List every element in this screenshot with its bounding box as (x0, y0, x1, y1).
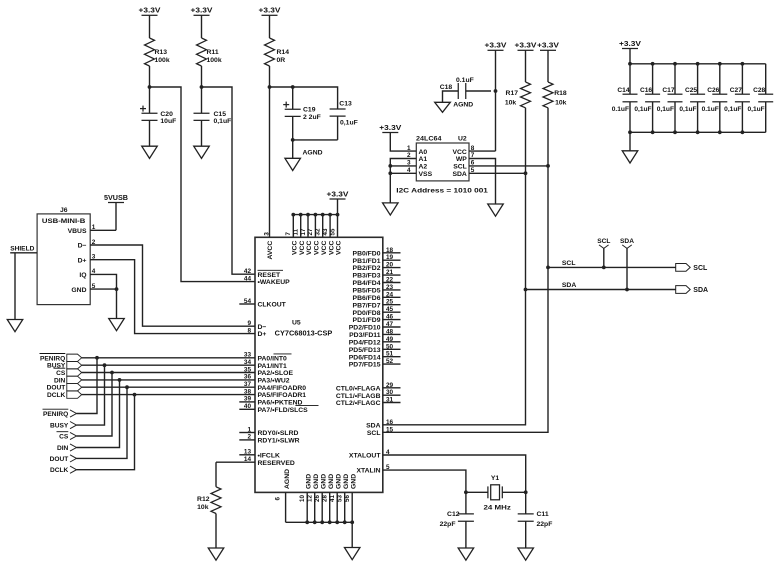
svg-text:10k: 10k (197, 504, 209, 511)
+3.3V rail (R13) (142, 14, 158, 16)
junction (718, 62, 722, 66)
port SDA (676, 286, 691, 294)
svg-text:•IFCLK: •IFCLK (258, 452, 280, 459)
svg-text:29: 29 (386, 382, 394, 389)
capacitor C28 (758, 94, 773, 102)
ground (shield) (7, 320, 23, 332)
AGND pin stub 6 (285, 492, 287, 522)
junction (200, 85, 204, 89)
VCC pin stub 32 (322, 215, 324, 238)
cap bank bottom bus (630, 131, 766, 133)
svg-text:SHIELD: SHIELD (10, 246, 34, 253)
pin stub 54 (239, 303, 255, 305)
svg-text:24LC64: 24LC64 (416, 136, 442, 143)
svg-text:55: 55 (329, 228, 336, 235)
cap bank top bus (630, 63, 766, 65)
svg-text:C19: C19 (303, 107, 316, 114)
svg-text:0R: 0R (277, 57, 286, 64)
D+ wire (90, 260, 255, 334)
svg-text:DIN: DIN (54, 377, 66, 384)
svg-text:PA5/FIFOADR1: PA5/FIFOADR1 (258, 392, 307, 399)
svg-text:26: 26 (314, 495, 321, 502)
svg-text:50: 50 (386, 343, 394, 350)
junction (118, 378, 122, 382)
svg-text:24 MHz: 24 MHz (484, 505, 512, 512)
svg-text:40: 40 (244, 403, 252, 410)
junction (524, 288, 528, 292)
wire C16 bottom (652, 102, 654, 133)
svg-text:VCC: VCC (328, 241, 335, 255)
ground (U2 WP) (488, 204, 504, 216)
svg-text:22pF: 22pF (440, 521, 456, 528)
svg-text:BUSY: BUSY (47, 363, 66, 370)
XTALOUT wire (383, 455, 526, 492)
SDA column (383, 108, 526, 425)
svg-text:C14: C14 (617, 87, 629, 94)
capacitor C18 (458, 83, 466, 99)
capacitor C27 (735, 94, 750, 102)
svg-text:VCC: VCC (292, 241, 299, 255)
svg-text:C28: C28 (753, 87, 765, 94)
wire (201, 66, 203, 114)
ground (194, 146, 210, 158)
svg-text:SCL: SCL (367, 430, 381, 437)
resistor R18 (543, 82, 553, 108)
svg-text:52: 52 (386, 358, 394, 365)
node DOUT flag (67, 384, 82, 391)
wire (466, 90, 491, 92)
svg-text:+3.3V: +3.3V (485, 43, 507, 50)
junction (718, 130, 722, 134)
VCC wire (469, 150, 496, 152)
svg-text:VCC: VCC (452, 149, 466, 156)
ground (J6) (109, 319, 125, 331)
svg-text:24: 24 (386, 291, 394, 298)
junction (328, 520, 332, 524)
pin stub 48 (383, 333, 401, 335)
wire (215, 514, 217, 549)
svg-text:SDA: SDA (693, 287, 708, 294)
svg-text:D+: D+ (78, 257, 87, 264)
port SCL (676, 264, 691, 272)
svg-text:DOUT: DOUT (47, 385, 66, 392)
svg-text:0,1uF: 0,1uF (747, 106, 764, 113)
svg-text:A2: A2 (419, 164, 428, 171)
svg-text:22: 22 (386, 277, 394, 284)
wire (629, 132, 631, 151)
GND pin stub 26 (321, 492, 323, 522)
wire (495, 50, 497, 151)
wire (465, 492, 467, 514)
wire DCLK drop (77, 395, 135, 470)
junction (602, 266, 606, 270)
svg-text:10: 10 (299, 495, 306, 502)
wire (292, 116, 294, 139)
A2 wire (390, 165, 416, 167)
svg-text:PB2/FD2: PB2/FD2 (353, 265, 381, 272)
pin stub 18 (383, 252, 401, 254)
junction (524, 490, 528, 494)
junction (546, 266, 550, 270)
svg-text:10k: 10k (555, 100, 567, 107)
svg-text:C18: C18 (440, 84, 453, 91)
capacitor C16 (645, 94, 660, 102)
+3.3V rail (cap bank) (622, 48, 638, 50)
svg-text:CY7C68013-CSP: CY7C68013-CSP (275, 331, 333, 338)
ground (cap bank) (622, 151, 638, 163)
svg-text:47: 47 (386, 321, 394, 328)
pin stub 13 (239, 454, 255, 456)
wire (293, 139, 338, 141)
svg-text:25: 25 (386, 299, 394, 306)
svg-text:+3.3V: +3.3V (191, 8, 213, 15)
wire C17 bottom (674, 102, 676, 133)
svg-text:DOUT: DOUT (50, 456, 69, 463)
svg-text:U5: U5 (292, 320, 301, 327)
wire C26 top (719, 64, 721, 94)
wire DIN to PA3 (82, 379, 255, 381)
junction (524, 171, 528, 175)
node DCLK input chevron (70, 466, 77, 473)
pin stub 50 (383, 348, 401, 350)
svg-text:GND: GND (320, 474, 327, 489)
junction (651, 130, 655, 134)
wire (149, 15, 151, 38)
wire (443, 91, 459, 102)
wire CS to PA2 (82, 372, 255, 374)
ground (R12) (208, 548, 224, 560)
wire (149, 120, 151, 146)
WP wire (469, 159, 496, 205)
svg-text:28: 28 (321, 495, 328, 502)
svg-text:C12: C12 (447, 511, 460, 518)
+3.3V rail (C18) (488, 49, 504, 51)
junction (291, 213, 295, 217)
svg-text:45: 45 (386, 306, 394, 313)
svg-text:PD5/FD13: PD5/FD13 (349, 347, 381, 354)
junction (110, 371, 114, 375)
wire (603, 248, 605, 267)
svg-text:WP: WP (456, 156, 467, 163)
net label SCL (599, 245, 609, 249)
svg-text:+3.3V: +3.3V (327, 191, 349, 198)
svg-text:SDA: SDA (452, 171, 466, 178)
node DIN flag (67, 376, 82, 383)
svg-text:SCL: SCL (562, 260, 576, 267)
capacitor C20 (140, 106, 158, 121)
svg-text:PA2/•SLOE: PA2/•SLOE (258, 370, 294, 377)
GND pin stub 41 (336, 492, 338, 522)
wire C26 bottom (719, 102, 721, 133)
A1 wire (390, 159, 416, 203)
VCC bus bar (293, 214, 337, 216)
pin stub 46 (383, 319, 401, 321)
RESERVED wire (216, 461, 255, 463)
svg-text:7: 7 (285, 232, 292, 236)
node BUSY flag (67, 362, 82, 369)
junction (673, 62, 677, 66)
wire (525, 521, 527, 548)
svg-text:AGND: AGND (303, 150, 323, 157)
pin stub 49 (383, 341, 401, 343)
pin stub 47 (383, 326, 401, 328)
ground AGND (285, 158, 301, 170)
node DCLK flag (67, 391, 82, 398)
svg-text:XTALIN: XTALIN (356, 468, 380, 475)
ID pin wire (90, 274, 116, 289)
junction (388, 164, 392, 168)
wire DIN drop (77, 380, 120, 448)
svg-text:PD7/FD15: PD7/FD15 (349, 362, 381, 369)
svg-text:SCL: SCL (453, 164, 467, 171)
svg-text:GND: GND (343, 474, 350, 489)
GND wire (90, 289, 116, 318)
junction (741, 130, 745, 134)
pin stub 39 (239, 401, 255, 403)
svg-text:SDA: SDA (366, 422, 380, 429)
svg-text:19: 19 (386, 254, 394, 261)
svg-text:CS: CS (56, 370, 66, 377)
junction (741, 62, 745, 66)
svg-text:CS: CS (59, 434, 69, 441)
VBUS wire (90, 229, 116, 231)
U2 SCL wire (469, 165, 548, 167)
capacitor C26 (712, 94, 727, 102)
svg-text:30: 30 (386, 389, 394, 396)
svg-text:0,1uF: 0,1uF (634, 106, 651, 113)
svg-text:R18: R18 (554, 90, 567, 97)
svg-text:DCLK: DCLK (47, 392, 66, 399)
svg-text:2 2uF: 2 2uF (303, 114, 321, 121)
GND bus bar (286, 521, 353, 523)
resistor R11 (197, 38, 207, 66)
wire (547, 50, 549, 82)
wire (626, 248, 628, 289)
wire PENIRQ drop (77, 358, 98, 414)
svg-text:GND: GND (335, 474, 342, 489)
svg-text:53: 53 (336, 495, 343, 502)
svg-text:10k: 10k (505, 100, 517, 107)
ground (chip) (344, 548, 360, 560)
junction (696, 62, 700, 66)
svg-text:18: 18 (386, 247, 394, 254)
wire AGND drop (292, 140, 294, 158)
svg-text:31: 31 (386, 397, 394, 404)
+3.3V rail (U2 A0) (382, 132, 398, 134)
svg-text:BUSY: BUSY (50, 423, 69, 430)
svg-text:C11: C11 (537, 511, 549, 518)
GND pin stub 28 (329, 492, 331, 522)
VCC pin stub 27 (314, 215, 316, 238)
junction (343, 520, 347, 524)
svg-text:PB0/FD0: PB0/FD0 (353, 250, 381, 257)
svg-text:VCC: VCC (336, 241, 343, 255)
svg-text:R17: R17 (506, 90, 519, 97)
svg-text:PENIRQ: PENIRQ (43, 411, 68, 418)
capacitor C14 (623, 94, 638, 102)
svg-text:1: 1 (247, 426, 251, 433)
junction (313, 520, 317, 524)
svg-text:PB4/FD4: PB4/FD4 (353, 280, 381, 287)
svg-text:C16: C16 (640, 87, 652, 94)
svg-text:RESET: RESET (258, 272, 282, 279)
svg-text:I2C Address = 1010 001: I2C Address = 1010 001 (396, 187, 488, 194)
svg-text:PB1/FD1: PB1/FD1 (353, 258, 381, 265)
wire AVCC feed (269, 66, 271, 237)
node PENIRQ input chevron (70, 410, 77, 417)
svg-text:0,1uF: 0,1uF (340, 120, 358, 127)
wire (201, 120, 203, 146)
svg-text:13: 13 (244, 449, 252, 456)
SDA net (526, 289, 676, 291)
svg-text:CTL1/•FLAGB: CTL1/•FLAGB (336, 393, 381, 400)
junction (625, 288, 629, 292)
svg-text:J6: J6 (60, 207, 68, 214)
ground (142, 146, 158, 158)
svg-text:USB-MINI-B: USB-MINI-B (42, 218, 86, 225)
capacitor C19 (283, 102, 301, 117)
junction (320, 520, 324, 524)
svg-text:R12: R12 (197, 496, 210, 503)
svg-text:54: 54 (244, 298, 252, 305)
junction (305, 520, 309, 524)
wire (337, 199, 339, 215)
svg-text:+3.3V: +3.3V (619, 41, 641, 48)
svg-text:PA4/FIFOADR0: PA4/FIFOADR0 (258, 385, 307, 392)
svg-text:PD4/FD12: PD4/FD12 (349, 339, 381, 346)
svg-text:GND: GND (305, 474, 312, 489)
capacitor C25 (690, 94, 705, 102)
junction (335, 520, 339, 524)
pin stub 19 (383, 259, 401, 261)
crystal Y1 (488, 485, 502, 500)
wire (14, 253, 16, 320)
svg-text:PA7/•FLD/SLCS: PA7/•FLD/SLCS (258, 407, 309, 414)
VCC pin stub 17 (307, 215, 309, 238)
svg-text:RDY1/•SLWR: RDY1/•SLWR (258, 438, 300, 445)
eeprom U2 24LC64 body (416, 143, 469, 181)
svg-text:PA3/•WU2: PA3/•WU2 (258, 378, 290, 385)
svg-text:+3.3V: +3.3V (515, 43, 537, 50)
svg-text:27: 27 (307, 228, 314, 235)
+3.3V rail (VCC bus) (330, 198, 346, 200)
svg-text:17: 17 (300, 228, 307, 235)
wire C14 bottom (629, 102, 631, 133)
pin stub 20 (383, 267, 401, 269)
svg-text:R11: R11 (207, 49, 219, 56)
ground (C12) (458, 548, 474, 560)
svg-text:0,1uF: 0,1uF (679, 106, 696, 113)
svg-text:+3.3V: +3.3V (139, 8, 161, 15)
ground (C11) (518, 548, 534, 560)
svg-text:PB6/FD6: PB6/FD6 (353, 295, 381, 302)
wire DOUT to PA4 (82, 386, 255, 388)
svg-text:PB5/FD5: PB5/FD5 (353, 288, 381, 295)
svg-text:D+: D+ (258, 331, 267, 338)
capacitor C15 (194, 113, 210, 120)
svg-text:VBUS: VBUS (68, 228, 87, 235)
wire C28 bottom (765, 102, 767, 133)
pin stub 21 (383, 274, 401, 276)
junction (336, 213, 340, 217)
wire BUSY to PA1 (82, 364, 255, 366)
svg-text:0,1uF: 0,1uF (657, 106, 674, 113)
VCC pin stub 7 (292, 215, 294, 238)
svg-text:PB3/FD3: PB3/FD3 (353, 273, 381, 280)
svg-text:PENIRQ: PENIRQ (40, 355, 65, 362)
junction (291, 85, 295, 89)
svg-text:DIN: DIN (57, 445, 69, 452)
wire C25 top (697, 64, 699, 94)
svg-text:32: 32 (315, 228, 322, 235)
svg-text:RDY0/•SLRD: RDY0/•SLRD (258, 430, 299, 437)
GND pin stub 10 (306, 492, 308, 522)
svg-text:A0: A0 (419, 149, 428, 156)
GND pin stub 53 (344, 492, 346, 522)
junction (148, 85, 152, 89)
svg-text:VSS: VSS (419, 171, 433, 178)
svg-text:GND: GND (71, 287, 86, 294)
svg-text:C26: C26 (707, 87, 719, 94)
svg-text:0,1uF: 0,1uF (724, 106, 741, 113)
VCC pin stub 55 (337, 215, 339, 238)
wire (502, 491, 525, 493)
wire (525, 50, 527, 82)
node DOUT input chevron (70, 455, 77, 462)
pin stub 2 (239, 439, 255, 441)
pin stub 23 (383, 289, 401, 291)
junction (299, 213, 303, 217)
junction (291, 138, 295, 142)
D- wire (90, 245, 255, 326)
junction (95, 356, 99, 360)
node DIN input chevron (70, 444, 77, 451)
capacitor C12 (458, 514, 474, 521)
svg-text:22pF: 22pF (537, 521, 553, 528)
+3.3V rail (R17) (518, 49, 534, 51)
svg-text:2: 2 (247, 434, 251, 441)
pin stub 25 (383, 304, 401, 306)
svg-text:21: 21 (386, 269, 394, 276)
svg-text:12: 12 (306, 495, 313, 502)
svg-text:A1: A1 (419, 156, 428, 163)
junction (628, 62, 632, 66)
wire (525, 492, 527, 514)
svg-text:0,1uF: 0,1uF (214, 118, 232, 125)
wire (337, 116, 339, 140)
pin stub 40 (239, 408, 255, 410)
svg-text:Y1: Y1 (491, 475, 500, 482)
SCL net (548, 266, 676, 268)
wire C17 top (674, 64, 676, 94)
svg-text:PD2/FD10: PD2/FD10 (349, 325, 381, 332)
pin stub 22 (383, 282, 401, 284)
svg-text:SDA: SDA (562, 282, 576, 289)
wire (466, 491, 488, 493)
junction (103, 363, 107, 367)
svg-text:3: 3 (263, 232, 270, 236)
svg-text:U2: U2 (458, 136, 467, 143)
svg-text:IQ: IQ (79, 272, 86, 279)
pin stub 24 (383, 296, 401, 298)
svg-text:PA1/INT1: PA1/INT1 (258, 363, 288, 370)
5VUSB rail (108, 202, 124, 204)
pin stub 31 (383, 402, 401, 404)
XTALIN wire (383, 470, 466, 492)
svg-text:AGND: AGND (284, 469, 291, 489)
pin stub 1 (239, 432, 255, 434)
junction (464, 490, 468, 494)
